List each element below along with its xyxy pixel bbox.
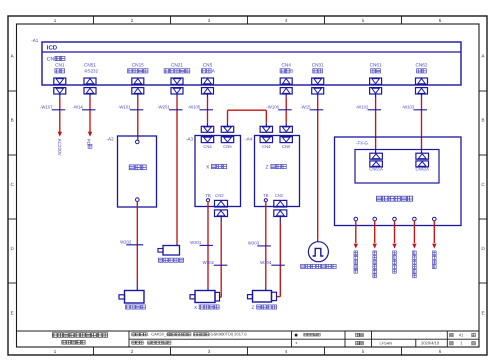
- svg-text:5: 5: [362, 349, 365, 354]
- svg-text::: :: [144, 341, 145, 345]
- svg-text:2020/4/19: 2020/4/19: [421, 340, 440, 345]
- title block: [17, 331, 480, 347]
- svg-text:Z: Z: [252, 305, 255, 311]
- wire -W107: [40, 98, 65, 133]
- position encoder: [158, 246, 184, 263]
- PC arrow: [86, 132, 92, 149]
- svg-text:CN2: CN2: [215, 193, 224, 198]
- load arrow coolant pump motor: [412, 221, 416, 278]
- wire W304: [260, 217, 285, 297]
- svg-text:4: 4: [285, 349, 288, 354]
- wire W202: [120, 201, 143, 290]
- svg-text:-W15: -W15: [300, 104, 311, 109]
- wire -W15: [300, 98, 323, 242]
- svg-text:CN5: CN5: [203, 63, 213, 68]
- svg-text:-W102: -W102: [356, 104, 369, 109]
- wire -W101: [118, 98, 143, 140]
- load arrow lubrication pump motor: [373, 221, 377, 278]
- connector CN31: [312, 63, 324, 98]
- svg-text:-W107: -W107: [40, 104, 53, 109]
- connector CN61: [370, 63, 382, 98]
- connector CN51: [84, 63, 98, 98]
- terminal TB (X drive): [205, 193, 211, 202]
- svg-text:-A1: -A1: [31, 38, 39, 43]
- load arrow hydraulic motor: [392, 221, 396, 273]
- output terminal (machine lamp): [433, 217, 437, 221]
- wire W301: [190, 202, 213, 291]
- svg-text:-W101: -W101: [118, 104, 131, 109]
- svg-text:CN15: CN15: [132, 63, 144, 68]
- connector CN1: [54, 63, 66, 98]
- wire -W201: [157, 98, 182, 246]
- svg-text:X: X: [194, 305, 198, 311]
- X servo motor: [190, 291, 220, 311]
- wire -W105: [188, 98, 213, 127]
- connector CN2 (X drive): [215, 193, 228, 216]
- svg-text:CN62: CN62: [416, 63, 428, 68]
- power distribution unit -FX-G: [335, 137, 462, 226]
- spindle motor: [119, 291, 145, 310]
- connector CN5 (Z drive): [280, 126, 292, 149]
- svg-text:-FX-G: -FX-G: [356, 140, 369, 145]
- svg-text:1: 1: [460, 341, 463, 346]
- output terminal (hydraulic motor): [393, 217, 397, 221]
- svg-text:A: A: [481, 54, 485, 59]
- wire W303: [248, 202, 271, 291]
- CNC unit -A1: [31, 38, 461, 85]
- svg-text:-A3: -A3: [186, 137, 194, 142]
- connector CN4: [280, 63, 293, 98]
- svg-text:CN51: CN51: [84, 63, 96, 68]
- svg-text:CN2: CN2: [275, 193, 284, 198]
- svg-text:-W14: -W14: [73, 104, 84, 109]
- svg-text:1: 1: [54, 18, 57, 23]
- svg-text:B: B: [481, 118, 484, 123]
- svg-text:CN5: CN5: [282, 144, 291, 149]
- servo drive -A4: [245, 136, 299, 207]
- svg-text:W303: W303: [248, 241, 260, 246]
- connector CN4 (X drive): [201, 126, 213, 149]
- servo drive -A3: [186, 136, 241, 207]
- svg-text:-W103: -W103: [402, 104, 415, 109]
- svg-text:A: A: [11, 54, 15, 59]
- Z servo motor: [248, 291, 277, 311]
- output terminal (coolant pump motor): [413, 217, 417, 221]
- svg-text:RS232: RS232: [85, 69, 99, 74]
- svg-text:CN5: CN5: [223, 144, 232, 149]
- svg-text:4: 4: [285, 18, 288, 23]
- svg-text:(GSK980TDi) 2017.6: (GSK980TDi) 2017.6: [209, 332, 247, 337]
- svg-text:W301: W301: [190, 240, 202, 245]
- svg-text:+: +: [295, 341, 298, 346]
- svg-text:TB: TB: [263, 193, 269, 198]
- output terminal (tool post motor): [354, 217, 358, 221]
- wire -W102: [356, 98, 381, 154]
- svg-text:-W105: -W105: [188, 104, 201, 109]
- svg-text:B: B: [290, 69, 293, 75]
- bus wire X-Z drives: [228, 110, 267, 126]
- svg-text:Z: Z: [266, 164, 269, 170]
- svg-text:E: E: [11, 311, 14, 316]
- svg-text:B: B: [11, 118, 14, 123]
- svg-text::: :: [148, 333, 149, 337]
- svg-text:3: 3: [208, 18, 211, 23]
- load arrow machine lamp: [432, 221, 436, 269]
- svg-text:CN62A: CN62A: [415, 167, 429, 172]
- load arrow tool post motor: [354, 221, 358, 273]
- svg-text:CN31: CN31: [312, 63, 324, 68]
- connector CN61A: [369, 153, 383, 171]
- connector CN15: [128, 63, 148, 98]
- svg-text:CN61A: CN61A: [369, 167, 383, 172]
- svg-text:41: 41: [459, 332, 464, 337]
- svg-text:3: 3: [208, 349, 211, 354]
- svg-text:C: C: [481, 182, 485, 187]
- svg-text:CN4: CN4: [262, 144, 271, 149]
- svg-text:W302: W302: [203, 260, 215, 265]
- svg-text:-W201: -W201: [157, 104, 170, 109]
- svg-text:CN21: CN21: [171, 63, 183, 68]
- wire -W106: [266, 98, 291, 127]
- connector CN62A: [415, 153, 429, 171]
- wire -W14: [73, 98, 96, 133]
- connector CN5 (X drive): [221, 126, 233, 149]
- wire -W103: [402, 98, 427, 154]
- connector CN2 (Z drive): [274, 193, 287, 216]
- wire W302: [203, 217, 228, 298]
- svg-text:CN4: CN4: [282, 63, 292, 68]
- svg-text:CN1: CN1: [55, 63, 65, 68]
- svg-text:E: E: [481, 311, 484, 316]
- svg-text:TB: TB: [205, 193, 211, 198]
- svg-text:C: C: [11, 182, 15, 187]
- svg-text:W304: W304: [260, 260, 272, 265]
- handwheel pulse generator: [301, 242, 337, 269]
- svg-text:W202: W202: [120, 239, 132, 244]
- svg-text:6: 6: [439, 18, 442, 23]
- AC220V supply arrow: [57, 132, 62, 157]
- svg-text:LFSAN: LFSAN: [380, 340, 393, 345]
- svg-text:2: 2: [131, 18, 134, 23]
- svg-text:ICD: ICD: [47, 44, 58, 51]
- svg-text:CN61: CN61: [370, 63, 382, 68]
- svg-text:-W106: -W106: [266, 104, 279, 109]
- connector CN4 (Z drive): [260, 126, 272, 149]
- svg-text:AC220V: AC220V: [57, 139, 62, 157]
- terminal TB (Z drive): [263, 193, 269, 202]
- svg-text:-A2: -A2: [107, 137, 115, 142]
- output terminal (lubrication pump motor): [373, 217, 377, 221]
- inverter -A2: [107, 136, 157, 207]
- connector CN5: [201, 63, 215, 98]
- svg-text:CN4: CN4: [203, 144, 212, 149]
- svg-text:X: X: [206, 164, 210, 170]
- svg-text:D: D: [481, 246, 485, 251]
- svg-text:1: 1: [54, 349, 57, 354]
- connector CN62: [416, 63, 428, 98]
- svg-text:-A4: -A4: [245, 137, 253, 142]
- svg-text:5: 5: [362, 18, 365, 23]
- svg-text:2: 2: [131, 349, 134, 354]
- connector CN21: [164, 63, 190, 98]
- svg-text:A: A: [212, 69, 216, 75]
- svg-text:D: D: [11, 246, 15, 251]
- svg-text:6: 6: [439, 349, 442, 354]
